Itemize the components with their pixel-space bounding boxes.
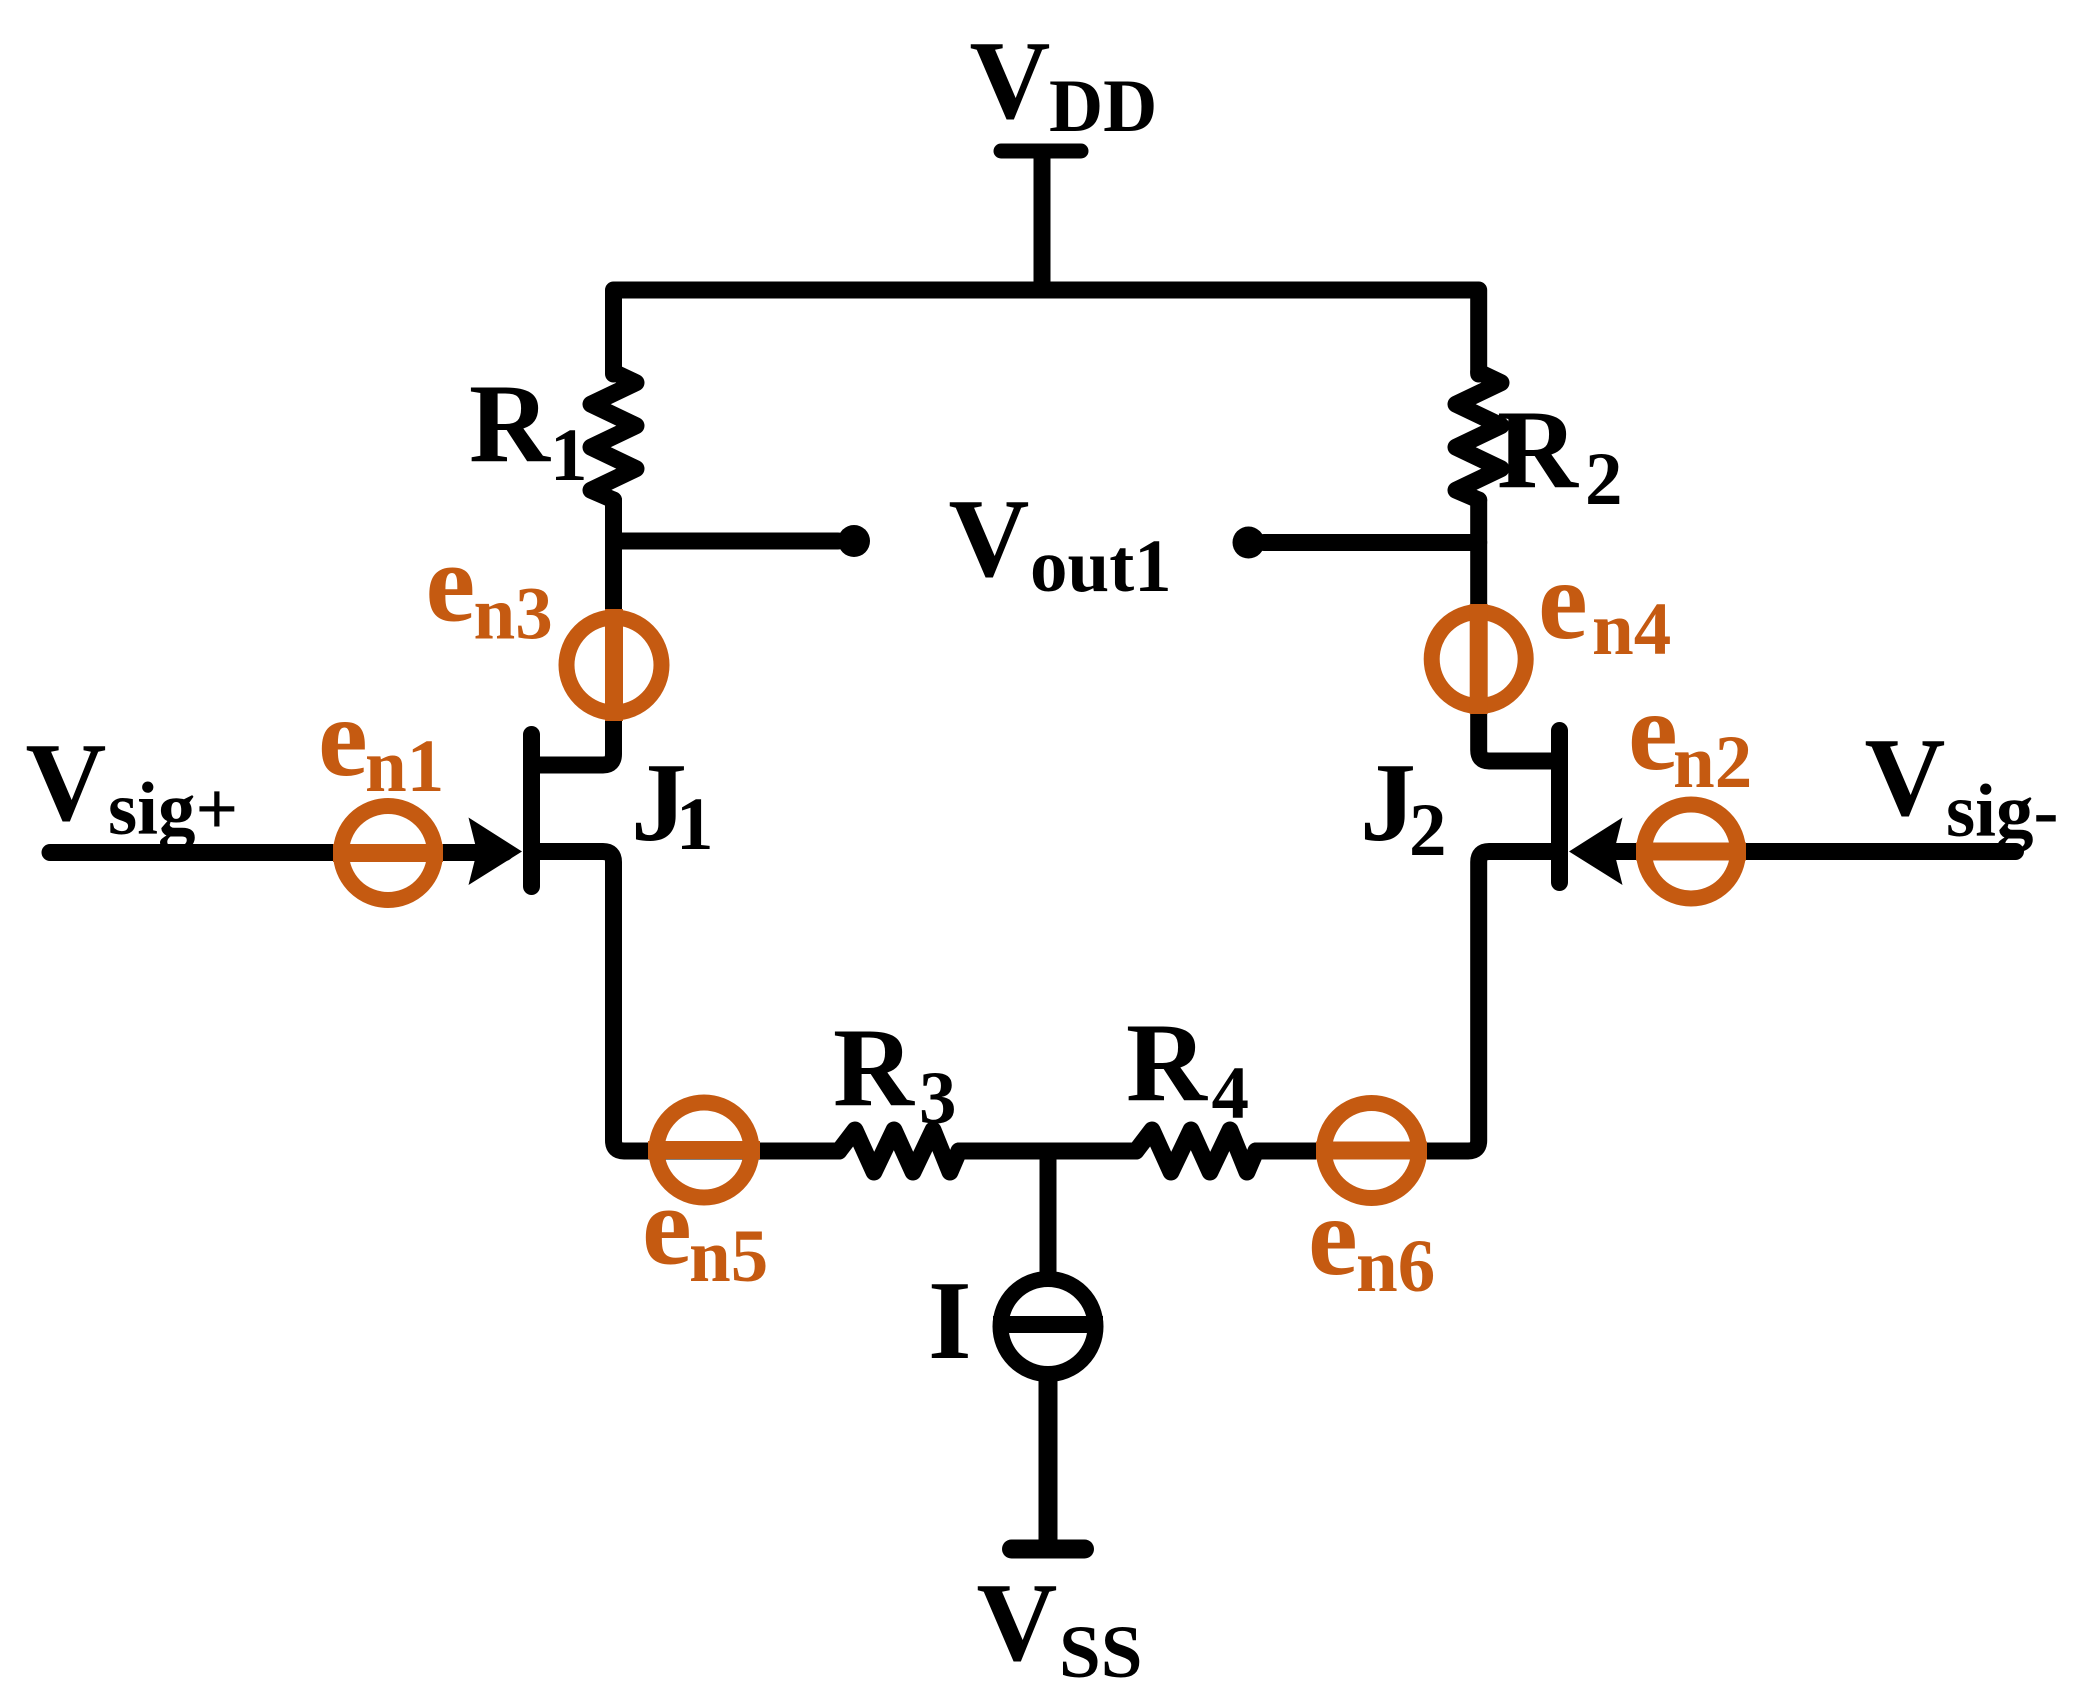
svg-text:R: R bbox=[1126, 1001, 1208, 1125]
svg-text:J: J bbox=[1360, 741, 1416, 865]
svg-text:e: e bbox=[1628, 670, 1678, 794]
svg-text:n6: n6 bbox=[1356, 1225, 1435, 1308]
svg-text:V: V bbox=[970, 19, 1051, 143]
svg-text:2: 2 bbox=[1409, 789, 1447, 872]
svg-text:n3: n3 bbox=[474, 573, 553, 656]
svg-text:V: V bbox=[977, 1561, 1058, 1685]
svg-text:e: e bbox=[1538, 539, 1588, 663]
svg-text:1: 1 bbox=[550, 414, 588, 497]
svg-text:R: R bbox=[833, 1006, 915, 1130]
svg-text:e: e bbox=[642, 1165, 692, 1289]
svg-text:n2: n2 bbox=[1673, 721, 1752, 804]
svg-text:e: e bbox=[318, 676, 368, 800]
svg-text:DD: DD bbox=[1049, 65, 1157, 148]
svg-text:sig-: sig- bbox=[1946, 770, 2059, 853]
svg-text:V: V bbox=[26, 721, 107, 845]
svg-text:e: e bbox=[426, 522, 476, 646]
svg-text:V: V bbox=[949, 477, 1030, 601]
svg-text:1: 1 bbox=[676, 783, 714, 866]
svg-text:3: 3 bbox=[919, 1057, 957, 1140]
svg-text:n1: n1 bbox=[365, 725, 444, 808]
svg-text:2: 2 bbox=[1585, 438, 1623, 521]
svg-text:n4: n4 bbox=[1592, 588, 1671, 671]
svg-text:n5: n5 bbox=[689, 1215, 768, 1298]
svg-text:sig+: sig+ bbox=[108, 768, 238, 851]
svg-text:out1: out1 bbox=[1030, 525, 1172, 608]
svg-text:V: V bbox=[1865, 716, 1946, 840]
svg-text:e: e bbox=[1308, 1175, 1358, 1299]
svg-text:I: I bbox=[928, 1259, 972, 1383]
svg-text:R: R bbox=[469, 362, 551, 486]
svg-text:SS: SS bbox=[1059, 1611, 1142, 1694]
svg-text:R: R bbox=[1497, 388, 1579, 512]
svg-text:4: 4 bbox=[1212, 1052, 1250, 1135]
